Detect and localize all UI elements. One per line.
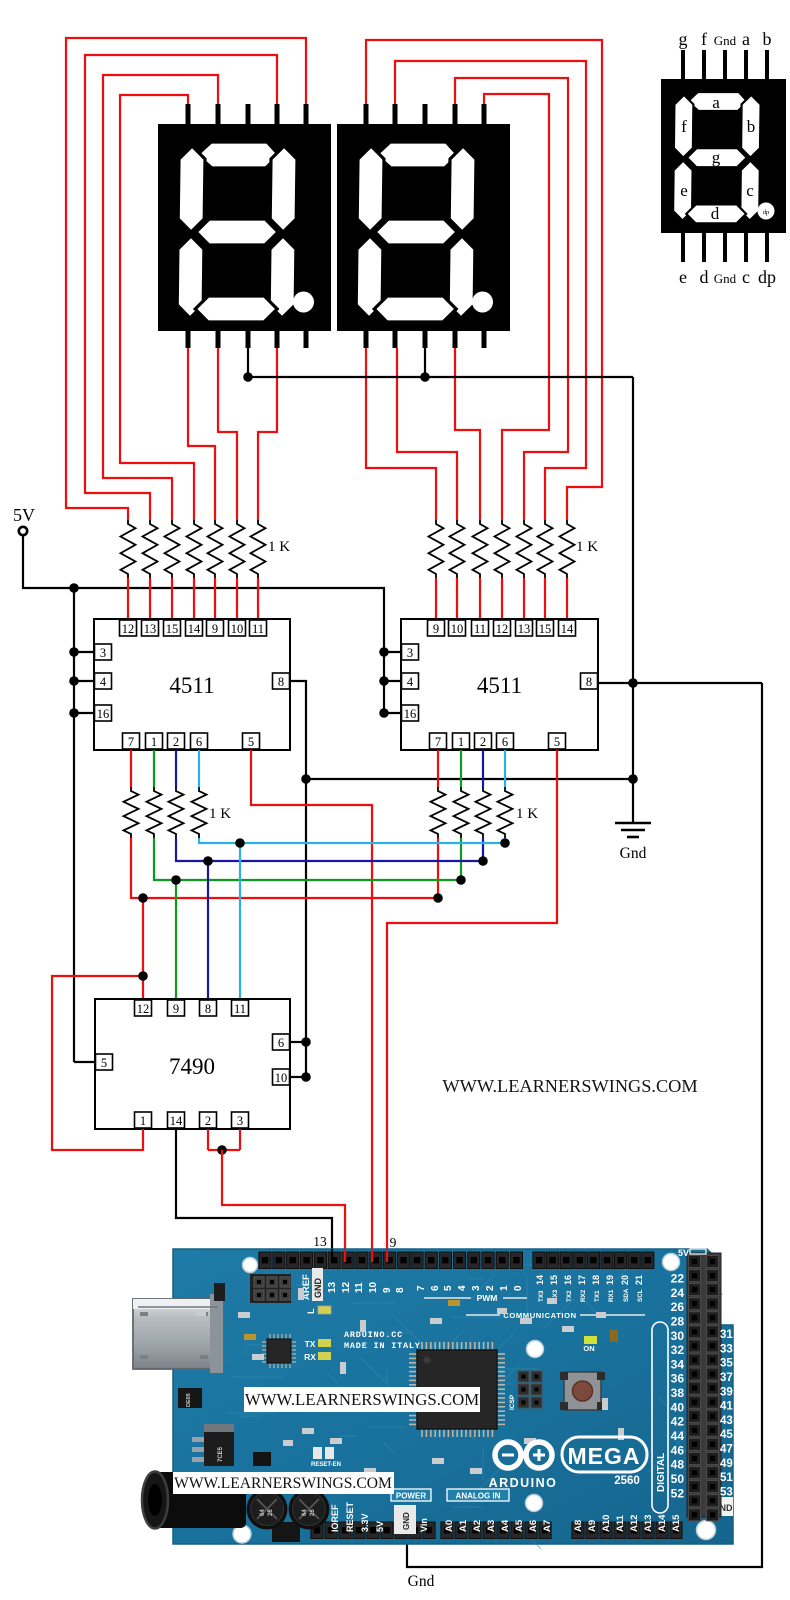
svg-text:Gnd: Gnd (408, 1573, 435, 1590)
svg-text:dp: dp (758, 267, 776, 287)
svg-text:13: 13 (518, 622, 531, 636)
U3 top pins 12 9 8 11 (135, 1000, 152, 1016)
ground symbol (632, 818, 634, 823)
svg-text:32: 32 (671, 1343, 685, 1357)
svg-text:A11: A11 (615, 1514, 626, 1532)
svg-text:0: 0 (513, 1285, 524, 1291)
pinout dp (758, 203, 775, 220)
svg-text:49: 49 (720, 1458, 733, 1470)
svg-text:4: 4 (407, 675, 414, 689)
U1 right pin 8 (273, 673, 290, 689)
svg-text:A15: A15 (671, 1514, 682, 1532)
wire DS1 pin a to resistor R2 (segment a) (85, 55, 277, 520)
U3 bottom pins 1 14 2 3 (135, 1112, 152, 1128)
svg-text:RESET-EN: RESET-EN (311, 1462, 341, 1468)
pinout diagram 7-segment module (661, 79, 786, 233)
junction ground link left (301, 774, 311, 784)
junction 5V rail (69, 583, 79, 593)
wire U3 pins 2 3 to Arduino pin 12 (207, 1129, 209, 1150)
svg-text:POWER: POWER (396, 1492, 426, 1501)
svg-text:16: 16 (563, 1275, 573, 1285)
svg-text:6: 6 (278, 1036, 284, 1050)
svg-text:53: 53 (720, 1487, 733, 1499)
svg-text:8: 8 (395, 1287, 406, 1293)
wire DS2 pin e to resistor R8 (segment e) (366, 348, 436, 520)
junction DS2 gnd (420, 372, 430, 382)
svg-text:dp: dp (763, 209, 770, 216)
small components (214, 1283, 225, 1301)
svg-text:2: 2 (173, 735, 179, 749)
svg-text:1: 1 (499, 1285, 510, 1291)
svg-text:2: 2 (480, 735, 486, 749)
svg-text:14: 14 (535, 1275, 545, 1285)
wire U3 pin14 into header pin 13 (331, 1249, 333, 1262)
svg-text:WWW.LEARNERSWINGS.COM: WWW.LEARNERSWINGS.COM (174, 1475, 392, 1492)
svg-text:5: 5 (443, 1285, 454, 1291)
board base (173, 1249, 733, 1544)
svg-text:A3: A3 (486, 1520, 497, 1532)
svg-text:WWW.LEARNERSWINGS.COM: WWW.LEARNERSWINGS.COM (442, 1076, 697, 1096)
svg-text:TX1: TX1 (594, 1290, 601, 1302)
svg-text:1 K: 1 K (576, 539, 598, 555)
svg-text:8: 8 (278, 675, 284, 689)
svg-text:1 K: 1 K (209, 806, 231, 822)
svg-text:GND: GND (402, 1512, 411, 1530)
svg-text:DE05: DE05 (186, 1393, 192, 1407)
wire bus B to U3 pin 9 (175, 880, 177, 1000)
svg-text:13: 13 (144, 622, 157, 636)
svg-text:13: 13 (313, 1234, 327, 1249)
svg-text:17: 17 (577, 1275, 587, 1285)
BCD bus D cyan (199, 838, 505, 843)
svg-text:ANALOG IN: ANALOG IN (456, 1492, 501, 1501)
svg-text:36: 36 (671, 1372, 685, 1386)
svg-text:9: 9 (173, 1002, 179, 1016)
top header pins (259, 1252, 271, 1269)
op IC 4511 U2 body (401, 619, 598, 750)
ICSP2 header (518, 1371, 529, 1382)
RESET-EN (313, 1447, 322, 1459)
svg-text:L: L (306, 1308, 316, 1314)
svg-text:SCL: SCL (637, 1289, 644, 1302)
svg-text:14: 14 (170, 1114, 183, 1128)
svg-text:5: 5 (101, 1056, 107, 1070)
svg-text:34: 34 (671, 1357, 685, 1371)
svg-text:11: 11 (474, 622, 486, 636)
svg-text:24: 24 (671, 1286, 685, 1300)
svg-text:RESET: RESET (345, 1501, 355, 1532)
wire DS1 pin g to resistor R4 (segment g) (120, 95, 194, 520)
svg-text:41: 41 (720, 1401, 733, 1413)
MEGA badge (562, 1437, 647, 1472)
svg-text:a: a (712, 93, 720, 112)
svg-text:3: 3 (237, 1114, 243, 1128)
svg-text:51: 51 (720, 1472, 733, 1484)
wire ground cross link (306, 778, 633, 780)
svg-text:28: 28 (671, 1314, 685, 1328)
svg-text:g: g (712, 148, 721, 167)
DS2 bottom pins (364, 327, 369, 348)
svg-text:7: 7 (416, 1285, 427, 1291)
U1 bottom pins 7 1 2 6 5 (123, 733, 140, 749)
svg-text:4: 4 (457, 1285, 468, 1291)
svg-text:3.3V: 3.3V (360, 1513, 370, 1532)
BCD bus B green (154, 838, 461, 880)
wire DS2 pin f to resistor R13 (segment f) (395, 61, 586, 520)
label POWER (391, 1489, 431, 1501)
svg-text:3: 3 (100, 646, 106, 660)
svg-text:9: 9 (433, 622, 439, 636)
wire DS2 pin g to resistor R14 (segment g) (366, 40, 602, 520)
svg-text:5V: 5V (13, 505, 35, 525)
svg-text:MADE IN ITALY: MADE IN ITALY (344, 1341, 421, 1351)
svg-text:13: 13 (327, 1281, 338, 1293)
svg-text:11: 11 (252, 622, 264, 636)
svg-text:4511: 4511 (169, 673, 214, 698)
svg-text:e: e (679, 267, 687, 287)
op IC 4511 U1 body (94, 619, 290, 750)
svg-text:15: 15 (549, 1275, 559, 1285)
svg-text:5: 5 (554, 735, 560, 749)
learnerswings band 1 (244, 1387, 480, 1412)
power jack (152, 1472, 246, 1528)
svg-text:b: b (747, 117, 756, 136)
svg-text:7CE5: 7CE5 (218, 1446, 224, 1462)
svg-text:A0: A0 (444, 1520, 455, 1532)
svg-text:44: 44 (671, 1429, 685, 1443)
wire U1 pin 8 ground net (290, 681, 306, 1077)
BCD bus C blue (176, 838, 483, 861)
svg-text:40: 40 (671, 1400, 685, 1414)
svg-text:MEGA: MEGA (568, 1443, 641, 1469)
svg-text:Gnd: Gnd (620, 845, 647, 862)
svg-text:3: 3 (471, 1285, 482, 1291)
wire DS1 pin c to resistor R7 (segment c) (258, 348, 277, 520)
U2 pin5 red wire to Arduino pin 9 (387, 750, 557, 1262)
wire DS2 pin d to resistor R9 (segment d) (397, 348, 457, 520)
svg-text:20: 20 (620, 1275, 630, 1285)
svg-text:4511: 4511 (477, 673, 522, 698)
U2 BCD input stubs (437, 750, 439, 787)
junction U3 pin10 (301, 1072, 311, 1082)
svg-text:64: 64 (302, 1509, 308, 1516)
resistor network RN4 1K x4 (431, 787, 446, 838)
svg-text:12: 12 (137, 1002, 150, 1016)
wire DS1 pin e to resistor R5 (segment e) (188, 348, 215, 520)
svg-text:50: 50 (671, 1472, 685, 1486)
svg-text:8: 8 (586, 675, 592, 689)
svg-text:A10: A10 (601, 1515, 612, 1532)
svg-text:5V: 5V (678, 1248, 689, 1258)
svg-text:9: 9 (382, 1287, 393, 1293)
resistor network RN1 1K x7 (121, 520, 136, 578)
U1 pin5 red wire to Arduino pin 10 (251, 750, 372, 1262)
svg-text:c: c (746, 181, 754, 200)
svg-text:12: 12 (496, 622, 509, 636)
svg-text:A7: A7 (542, 1520, 553, 1532)
svg-text:10: 10 (231, 622, 244, 636)
junction bus D at RN4 (500, 838, 510, 848)
counter IC 7490 U3 body (95, 999, 290, 1129)
wire display common ground bus (247, 334, 249, 377)
wire Arduino GND return loop (407, 683, 762, 1567)
svg-text:SDA: SDA (623, 1288, 630, 1302)
svg-text:d: d (711, 204, 720, 223)
U1 left pins 3 4 16 (95, 644, 112, 660)
svg-text:2560: 2560 (614, 1475, 640, 1487)
ON LED (584, 1336, 597, 1344)
svg-text:IOREF: IOREF (330, 1504, 340, 1532)
wire bus D to U3 pin 11 (239, 843, 241, 1000)
pcb traces (198, 1259, 723, 1549)
junction U3 pin6 (301, 1037, 311, 1047)
svg-text:WWW.LEARNERSWINGS.COM: WWW.LEARNERSWINGS.COM (245, 1390, 479, 1409)
wire DS2 pin c to resistor R10 (segment c) (455, 348, 480, 520)
svg-text:18: 18 (591, 1275, 601, 1285)
svg-text:43: 43 (720, 1415, 733, 1427)
svg-text:42: 42 (671, 1415, 685, 1429)
svg-text:a: a (742, 29, 750, 49)
wire DS2 pin a to resistor R12 (segment a) (455, 78, 568, 520)
svg-text:25: 25 (310, 1509, 316, 1516)
svg-text:15: 15 (166, 622, 179, 636)
wires RN2 to U2 inputs (435, 578, 437, 620)
svg-text:ND: ND (720, 1503, 733, 1513)
svg-text:19: 19 (605, 1275, 615, 1285)
junction bus A to U3 pin12 (138, 893, 148, 903)
svg-text:A14: A14 (657, 1514, 668, 1532)
pinout bottom pins (681, 229, 685, 262)
U3 right pins 6 10 (273, 1034, 290, 1050)
learnerswings band 2 (173, 1472, 394, 1494)
ATmega2560 chip (409, 1353, 417, 1355)
DS1 bottom pins (186, 327, 191, 348)
wire DS1 pin b to resistor R1 (segment b) (66, 38, 306, 520)
junction bus B to U3 pin9 (171, 875, 181, 885)
svg-text:47: 47 (720, 1444, 733, 1456)
svg-text:6: 6 (430, 1285, 441, 1291)
svg-text:11: 11 (354, 1282, 365, 1293)
svg-text:38: 38 (671, 1386, 685, 1400)
svg-text:52: 52 (671, 1486, 685, 1500)
BCD bus A red (131, 838, 438, 898)
svg-text:Gnd: Gnd (714, 271, 737, 286)
wire 5V to IC supply rails (23, 535, 384, 713)
svg-text:f: f (701, 29, 707, 49)
U2 left pins 3 4 16 (402, 644, 419, 660)
svg-text:16: 16 (97, 707, 110, 721)
svg-text:Vin: Vin (419, 1518, 429, 1532)
pinout digit segments (688, 92, 748, 111)
svg-text:35: 35 (720, 1358, 733, 1370)
reset button (564, 1372, 601, 1410)
svg-text:1: 1 (458, 735, 464, 749)
svg-text:A8: A8 (573, 1520, 584, 1532)
svg-text:64: 64 (260, 1509, 266, 1516)
svg-text:c: c (742, 267, 750, 287)
U3 left pin 5 (96, 1054, 113, 1070)
svg-text:48: 48 (671, 1458, 685, 1472)
7-segment display DS2 (right digit) (337, 124, 510, 331)
svg-text:7: 7 (435, 735, 441, 749)
svg-text:A4: A4 (500, 1519, 511, 1532)
junction DS1 gnd (243, 372, 253, 382)
svg-text:A5: A5 (514, 1519, 525, 1532)
DS1 top pins (186, 104, 191, 128)
wire U2 pin 8 to ground rail (598, 682, 762, 684)
svg-text:33: 33 (720, 1343, 733, 1355)
wire U3 pin 14 to Arduino pin 13 (176, 1129, 332, 1262)
ICSP1 header (250, 1274, 291, 1303)
wire red into pin 12 (344, 1249, 346, 1262)
svg-text:RX: RX (304, 1352, 316, 1362)
svg-text:A12: A12 (629, 1515, 640, 1532)
svg-text:g: g (679, 29, 688, 49)
svg-text:COMMUNICATION: COMMUNICATION (503, 1311, 576, 1320)
svg-text:7490: 7490 (169, 1054, 215, 1079)
svg-text:d: d (700, 267, 709, 287)
svg-text:4: 4 (100, 675, 107, 689)
U2 right pin 8 (581, 673, 598, 689)
svg-text:10: 10 (368, 1281, 379, 1293)
wire U3 pin12 feedback loop to pin 1 (52, 976, 143, 1150)
svg-text:9: 9 (390, 1235, 397, 1250)
svg-text:15: 15 (539, 622, 552, 636)
svg-text:12: 12 (341, 1281, 352, 1293)
svg-text:6: 6 (502, 735, 508, 749)
label DIGITAL (652, 1322, 668, 1513)
svg-text:22: 22 (671, 1272, 685, 1286)
svg-text:f: f (681, 117, 687, 136)
svg-text:14: 14 (561, 622, 574, 636)
wire U3 pin 6 to ground net (290, 1041, 306, 1043)
mounting holes (243, 1258, 258, 1273)
svg-text:ARDUINO.CC: ARDUINO.CC (344, 1330, 403, 1340)
svg-text:1 K: 1 K (268, 539, 290, 555)
wire red into pin 9 (386, 1249, 388, 1262)
svg-text:ICSP: ICSP (509, 1394, 516, 1410)
svg-text:11: 11 (234, 1002, 246, 1016)
DS2 top pins (364, 104, 369, 128)
svg-text:21: 21 (634, 1275, 644, 1285)
bottom header pins (311, 1522, 323, 1539)
svg-text:PWM: PWM (477, 1293, 498, 1303)
junction bus A at RN4 (433, 893, 443, 903)
svg-text:10: 10 (451, 622, 464, 636)
svg-text:45: 45 (720, 1429, 733, 1441)
svg-text:A9: A9 (587, 1520, 598, 1532)
svg-text:16: 16 (404, 707, 417, 721)
svg-text:26: 26 (671, 1300, 685, 1314)
wire U3 pin 10 to ground net (290, 1076, 306, 1078)
svg-text:8: 8 (205, 1002, 211, 1016)
svg-text:TX2: TX2 (566, 1290, 573, 1302)
svg-text:10: 10 (275, 1071, 288, 1085)
svg-text:b: b (763, 29, 772, 49)
svg-text:RX1: RX1 (608, 1289, 615, 1302)
svg-text:A13: A13 (643, 1515, 654, 1532)
svg-text:A6: A6 (528, 1520, 539, 1532)
svg-text:39: 39 (720, 1386, 733, 1398)
svg-text:3: 3 (407, 646, 413, 660)
electrolytic capacitors (247, 1489, 288, 1530)
junction U2 pin8 ground (628, 678, 638, 688)
svg-text:14: 14 (188, 622, 201, 636)
wire DS1 pin f to resistor R3 (segment f) (103, 75, 218, 520)
svg-text:1: 1 (151, 735, 157, 749)
U1 top pins 12 13 15 14 9 10 11 (120, 620, 137, 636)
svg-text:DIGITAL: DIGITAL (656, 1453, 667, 1492)
junction ground link right (628, 774, 638, 784)
junction bus B at RN4 (456, 875, 466, 885)
wire bus C to U3 pin 8 (207, 861, 209, 1000)
svg-text:1 K: 1 K (516, 806, 538, 822)
svg-text:ON: ON (583, 1344, 594, 1353)
svg-text:46: 46 (671, 1443, 685, 1457)
label ANALOG IN (447, 1489, 509, 1501)
svg-text:TX3: TX3 (538, 1290, 545, 1302)
svg-text:Gnd: Gnd (714, 33, 737, 48)
svg-text:ARDUINO: ARDUINO (489, 1476, 558, 1490)
svg-text:31: 31 (720, 1329, 733, 1341)
svg-text:6: 6 (196, 735, 202, 749)
wire 5V rail to 4511 U1 pins (73, 588, 75, 1062)
ATmega16U2 chip (262, 1341, 267, 1343)
U1 BCD input stubs (130, 750, 132, 787)
right double header block (687, 1497, 733, 1516)
resistor network RN2 1K x7 (429, 520, 444, 578)
svg-text:2: 2 (205, 1114, 211, 1128)
svg-text:5: 5 (248, 735, 254, 749)
wire bus A to U3 pin 12 (142, 898, 144, 1000)
junction bus C to U3 pin8 (203, 856, 213, 866)
usb crimp dots (140, 1312, 148, 1316)
svg-text:7: 7 (128, 735, 134, 749)
junction bus C at RN4 (478, 856, 488, 866)
7-segment display DS1 (left digit) (158, 124, 331, 331)
svg-text:A1: A1 (458, 1519, 469, 1532)
wire DS1 pin d to resistor R6 (segment d) (218, 348, 237, 520)
svg-text:e: e (680, 181, 688, 200)
wire red into pin 10 (371, 1249, 373, 1262)
svg-text:25: 25 (268, 1509, 274, 1516)
wire DS2 pin b to resistor R11 (segment b) (484, 94, 549, 520)
svg-text:37: 37 (720, 1372, 733, 1384)
svg-text:TX: TX (305, 1339, 316, 1349)
U2 bottom pins 7 1 2 6 5 (430, 733, 447, 749)
junction bus D to U3 pin11 (235, 838, 245, 848)
pinout top pins (681, 50, 685, 83)
svg-text:1: 1 (140, 1114, 146, 1128)
svg-text:GND: GND (313, 1278, 323, 1299)
svg-text:A2: A2 (472, 1520, 483, 1532)
svg-text:12: 12 (122, 622, 135, 636)
Arduino logo infinity (495, 1442, 521, 1468)
resistor network RN3 1K x4 (124, 787, 139, 838)
svg-text:2: 2 (485, 1285, 496, 1291)
5V terminal (19, 527, 27, 535)
svg-text:RX2: RX2 (580, 1289, 587, 1302)
wires RN1 to U1 inputs (127, 578, 129, 620)
svg-text:9: 9 (212, 622, 218, 636)
svg-text:5V: 5V (375, 1521, 385, 1532)
U2 top pins 9 10 11 12 13 15 14 (428, 620, 445, 636)
svg-text:30: 30 (671, 1329, 685, 1343)
USB connector (133, 1299, 223, 1369)
voltage regulator (204, 1424, 234, 1432)
